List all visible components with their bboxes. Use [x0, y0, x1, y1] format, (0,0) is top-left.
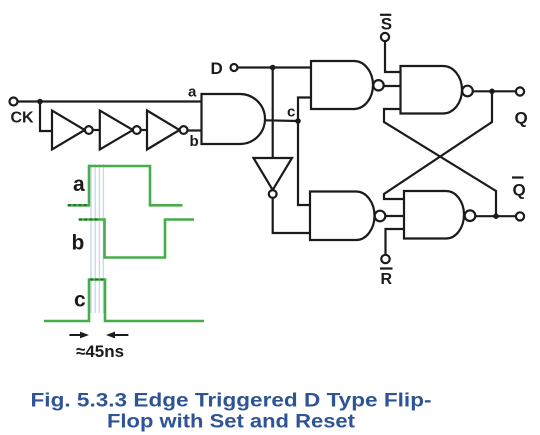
- NAND gate U7: [401, 66, 473, 114]
- wire U9 output to Q-bar: [475, 215, 516, 217]
- inverter U2: [100, 111, 141, 150]
- waveform a: [68, 166, 183, 205]
- wire U8 output to gate U6: [273, 198, 310, 233]
- svg-text:Flop with Set and Reset: Flop with Set and Reset: [107, 412, 356, 433]
- inverter U8 (D-bar): [254, 158, 293, 198]
- wire AND output to node c: [265, 119, 298, 122]
- wire c up to gate U5: [298, 98, 311, 122]
- svg-text:D: D: [211, 59, 223, 78]
- R-bar input terminal: [381, 255, 389, 263]
- wire Q feedback to gate U9: [384, 91, 492, 199]
- wire S-bar to gate U7: [385, 41, 401, 72]
- Q-bar output terminal: [516, 212, 524, 220]
- inverter U1: [52, 111, 93, 150]
- svg-text:S: S: [381, 15, 392, 34]
- svg-text:a: a: [73, 173, 85, 196]
- Q output terminal: [516, 87, 524, 95]
- svg-text:a: a: [188, 84, 197, 101]
- S-bar label: [380, 15, 392, 34]
- wire c down to gate U6: [298, 121, 310, 205]
- inverter U3: [147, 111, 188, 150]
- svg-text:Q: Q: [515, 109, 528, 128]
- wire U2 to U3: [141, 129, 147, 131]
- wire U6 output to gate U9: [385, 215, 404, 217]
- waveform c: [44, 280, 204, 322]
- wire CK down to inverter chain: [40, 102, 52, 132]
- svg-text:≈45ns: ≈45ns: [76, 342, 124, 361]
- svg-text:R: R: [381, 271, 393, 288]
- junction c node: [295, 118, 301, 124]
- NAND gate U5: [311, 61, 384, 109]
- junction CK node: [37, 99, 43, 105]
- NAND gate U9: [404, 191, 475, 239]
- R-bar label: [380, 269, 393, 289]
- wire D to gate U5: [238, 66, 312, 68]
- CK input terminal: [10, 98, 18, 106]
- wire U7 output to Q: [473, 90, 516, 92]
- wire U1 to U2: [93, 129, 100, 131]
- junction Q node: [489, 89, 495, 95]
- wire CK to AND input a: [18, 100, 202, 102]
- svg-text:b: b: [72, 232, 85, 255]
- wire U3 to AND input b: [188, 129, 202, 131]
- delay measure arrow left (points right): [69, 332, 89, 339]
- NAND gate U6: [310, 192, 385, 241]
- S-bar input terminal: [381, 33, 389, 41]
- AND gate U4: [202, 94, 265, 144]
- wire U5 output to gate U7: [384, 85, 401, 87]
- Q-bar label: [512, 178, 526, 200]
- junction Q-bar node: [493, 213, 499, 219]
- delay measure arrow right (points left): [106, 332, 128, 339]
- wire R-bar to gate U9: [386, 229, 405, 255]
- svg-text:Fig. 5.3.3 Edge Triggered D Ty: Fig. 5.3.3 Edge Triggered D Type Flip-: [31, 391, 432, 412]
- svg-text:b: b: [190, 133, 199, 150]
- svg-text:Q: Q: [513, 181, 526, 200]
- svg-text:CK: CK: [11, 110, 35, 127]
- svg-text:c: c: [287, 104, 295, 121]
- junction D node: [270, 65, 276, 71]
- wire Q-bar feedback to gate U7: [384, 109, 496, 216]
- D input terminal: [231, 64, 238, 71]
- wire D down to inverter U8: [272, 68, 274, 159]
- blue delay marker lines: [91, 164, 103, 313]
- waveform b: [79, 220, 195, 258]
- svg-text:c: c: [74, 289, 86, 312]
